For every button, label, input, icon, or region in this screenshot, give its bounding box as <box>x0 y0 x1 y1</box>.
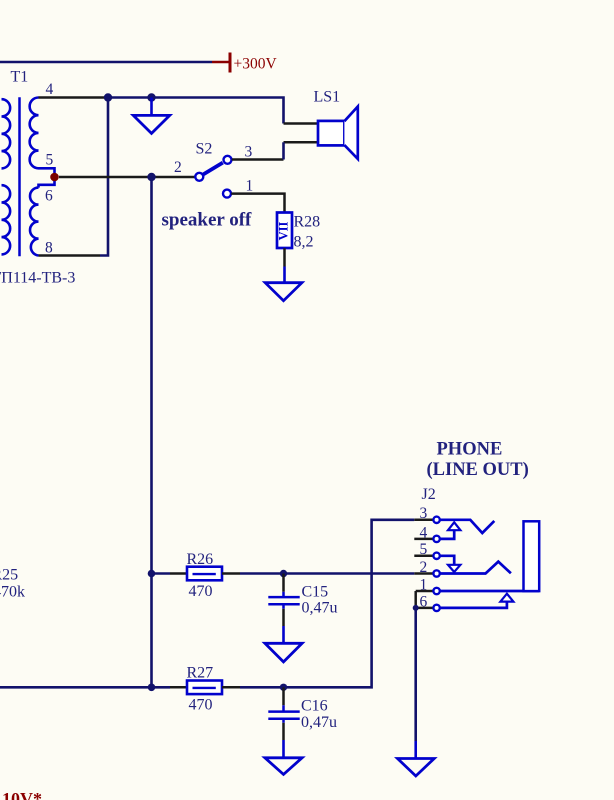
J2 pin 4 lead <box>414 538 433 541</box>
svg-text:C16: C16 <box>301 698 328 715</box>
wire pin1 to pin6 <box>414 591 417 608</box>
svg-text:8: 8 <box>45 240 53 257</box>
transformer T1 primary winding lower <box>2 185 11 254</box>
R28 bottom lead <box>283 248 286 266</box>
J2 pin 6 circle <box>433 605 439 611</box>
junction dot pin1/pin6 <box>413 605 419 611</box>
junction dot R27 row <box>148 684 156 692</box>
svg-text:1: 1 <box>420 576 428 593</box>
J2 pin 6 lead <box>416 607 433 610</box>
R26 right lead <box>222 572 240 575</box>
junction dot long vertical <box>147 173 155 181</box>
junction dot R26 row <box>148 570 156 578</box>
C15 bottom lead <box>282 605 285 609</box>
C16 bottom lead <box>282 720 285 723</box>
wire pin8 to top node <box>100 98 108 256</box>
ground (J2) <box>398 759 435 777</box>
J2 pin 3 lead <box>414 519 433 522</box>
svg-text:10V*: 10V* <box>2 789 42 800</box>
wire C16 to ground <box>282 740 285 758</box>
svg-text:1: 1 <box>246 178 254 195</box>
svg-text:S2: S2 <box>196 141 213 158</box>
J2 pin 1 lead <box>416 590 433 593</box>
svg-text:J2: J2 <box>422 486 436 503</box>
junction dot C16 <box>280 684 287 691</box>
svg-text:R25: R25 <box>0 567 18 584</box>
resistor R26 power mark <box>193 573 216 575</box>
wire top node <box>105 98 284 124</box>
svg-text:PHONE: PHONE <box>437 440 503 460</box>
wire left to R27 <box>0 686 170 689</box>
wire R26 to J2 pin2 <box>240 572 414 575</box>
svg-text:6: 6 <box>45 188 53 205</box>
ground (C16) <box>265 758 302 775</box>
svg-text:470: 470 <box>189 583 213 600</box>
J2 ring contact (pin 2) <box>440 562 511 574</box>
svg-text:VII: VII <box>276 221 290 240</box>
resistor R27 power mark <box>193 687 216 689</box>
J2 tip contact (pin 3) <box>440 520 495 533</box>
ground (R28) <box>265 283 302 301</box>
wire pin5 to switch <box>59 176 195 179</box>
svg-text:(LINE OUT): (LINE OUT) <box>427 460 529 480</box>
J2 pin 4 circle <box>433 536 439 542</box>
switch S2 arm <box>203 163 223 175</box>
svg-text:2: 2 <box>420 559 428 576</box>
wire contact3 to speaker <box>232 158 284 161</box>
svg-text:C15: C15 <box>302 584 329 601</box>
junction dot pin5 (red) <box>50 173 59 182</box>
transformer T1 secondary winding 6-8 <box>30 188 39 256</box>
pin 4 lead <box>39 96 106 99</box>
R26 left lead <box>170 572 187 575</box>
resistor R26 <box>187 567 222 581</box>
J2 pin 4 switch arrow <box>440 522 461 539</box>
svg-text:0,47u: 0,47u <box>302 600 338 617</box>
switch S2 contact 1 <box>223 190 231 198</box>
svg-text:T1: T1 <box>11 69 29 86</box>
ground (C15) <box>265 643 302 662</box>
junction dot ground/top <box>147 93 155 101</box>
svg-text:2: 2 <box>174 159 182 176</box>
svg-text:ТП114-ТВ-3: ТП114-ТВ-3 <box>0 269 75 286</box>
J2 pin 2 lead <box>414 572 433 575</box>
capacitor C15 <box>268 597 299 604</box>
svg-text:5: 5 <box>420 541 428 558</box>
svg-text:8,2: 8,2 <box>294 234 314 251</box>
J2 pin 5 circle <box>433 553 439 559</box>
svg-text:R27: R27 <box>187 665 214 682</box>
resistor R27 <box>187 681 222 695</box>
wire contact1 to R28 <box>231 194 284 213</box>
J2 pin 3 circle <box>433 517 439 523</box>
speaker LS1 top lead <box>284 122 319 125</box>
J2 pin 2 circle <box>433 570 439 576</box>
svg-text:+300V: +300V <box>234 56 278 73</box>
C16 top lead <box>282 687 285 705</box>
C15 top lead <box>282 574 285 592</box>
junction dot pin8/top <box>104 93 112 101</box>
pin 8 lead <box>39 254 101 257</box>
svg-text:470k: 470k <box>0 584 25 601</box>
svg-text:470: 470 <box>189 697 213 714</box>
switch S2 contact 2 <box>195 173 203 181</box>
svg-text:5: 5 <box>46 152 54 169</box>
transformer T1 pin 5 tap step <box>39 168 55 177</box>
wire J2 to ground <box>414 608 417 741</box>
R27 left lead <box>170 686 187 689</box>
svg-text:0,47u: 0,47u <box>301 714 337 731</box>
capacitor C16 <box>268 712 299 719</box>
wire R28 to ground <box>283 267 286 283</box>
R27 right lead <box>222 686 240 689</box>
svg-text:6: 6 <box>420 593 428 610</box>
J2 pin 1 circle <box>433 588 439 594</box>
junction dot C15 <box>280 570 287 577</box>
svg-text:3: 3 <box>245 144 253 161</box>
J2 sleeve line (pin 1) <box>440 590 539 593</box>
svg-text:4: 4 <box>46 81 54 98</box>
switch S2 contact 3 <box>224 156 232 164</box>
wire +300V rail <box>0 61 212 64</box>
svg-text:LS1: LS1 <box>314 89 341 106</box>
ground (top node) <box>133 115 169 133</box>
wire long vertical <box>150 177 153 687</box>
transformer T1 core <box>18 97 21 256</box>
svg-text:R28: R28 <box>294 214 321 231</box>
J2 pin 5 lead <box>414 555 433 558</box>
transformer T1 pin 6 tap step <box>39 177 55 188</box>
+300V supply terminal <box>212 53 230 73</box>
wire ground stub <box>150 98 153 116</box>
speaker LS1 horn <box>344 107 357 159</box>
wire to R26 <box>152 572 171 575</box>
svg-text:4: 4 <box>420 524 428 541</box>
transformer T1 primary winding upper <box>2 99 11 168</box>
svg-text:3: 3 <box>420 505 428 522</box>
J2 sleeve body <box>524 521 540 591</box>
wire R27 to J2 pin3 <box>240 520 414 688</box>
J2 pin 5 switch arrow <box>440 556 461 572</box>
svg-text:R26: R26 <box>187 551 214 568</box>
wire C15 to ground <box>282 626 285 643</box>
J2 pin 6 switch arrow <box>440 594 514 608</box>
svg-text:speaker off: speaker off <box>162 210 253 231</box>
speaker LS1 bottom lead <box>284 141 319 144</box>
resistor R28 <box>277 213 292 249</box>
transformer T1 secondary winding 4-5 <box>30 98 39 169</box>
speaker LS1 box <box>318 121 344 145</box>
